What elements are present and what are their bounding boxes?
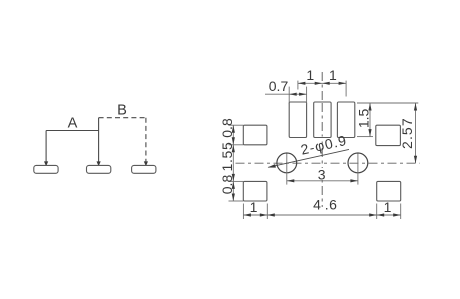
centerline vertical: [321, 72, 323, 207]
top pad 2: [314, 102, 331, 138]
svg-text:2.57: 2.57: [399, 117, 415, 149]
side pad right-bottom: [377, 181, 401, 201]
terminal pad 3: [132, 165, 156, 173]
ext line 1.5 bottom: [357, 136, 373, 138]
ext tick 0.7 right: [306, 87, 308, 105]
arrow at pad 2: [97, 161, 101, 166]
dim 0.7 line: [265, 93, 307, 95]
ext 243: [242, 204, 244, 220]
top pad 1: [289, 102, 306, 138]
arrow at pad 3: [144, 161, 148, 166]
ext line y201: [229, 200, 244, 202]
terminal pad 2: [87, 165, 111, 173]
svg-text:0.7: 0.7: [269, 78, 289, 94]
side pad left-bottom: [243, 181, 267, 201]
ext 376: [376, 204, 378, 220]
dim 2.57 line: [415, 103, 417, 163]
ext line y125: [229, 124, 244, 126]
dim 1.5 line: [369, 103, 371, 137]
hole circle left: [277, 153, 297, 173]
ext line y181: [229, 180, 244, 182]
wire vertical to pad 2: [98, 118, 100, 165]
ext tick 0.7 left: [288, 87, 290, 105]
svg-text:B: B: [117, 103, 127, 119]
top pad 3: [337, 102, 354, 138]
arrows 4.6: [267, 213, 275, 216]
wire A horizontal: [46, 130, 99, 132]
center mark / extension right circle: [357, 154, 359, 185]
dim 3 line: [287, 180, 358, 182]
ext tick right: [345, 81, 347, 97]
ext line top right long: [357, 102, 418, 104]
arrows chain 0.8 top: [232, 125, 235, 133]
center mark / extension left circle: [286, 154, 288, 185]
wire A vertical to pad 1: [45, 131, 47, 165]
arrows chain 0.8 bottom: [232, 181, 235, 189]
svg-text:1.55: 1.55: [219, 141, 235, 171]
bottom dim line: [243, 214, 400, 216]
leader line 2-phi0.9: [268, 149, 349, 167]
left chain dim line: [232, 125, 234, 201]
terminal pad 1: [34, 165, 58, 173]
svg-text:0.8: 0.8: [219, 175, 235, 195]
white backing for 3: [317, 168, 327, 180]
hole circle right: [348, 153, 368, 173]
arrows 1.5: [368, 103, 371, 111]
wire B vertical dashed to pad 3: [145, 118, 147, 165]
arrows 1 left: [243, 213, 251, 216]
arrows pitch dims: [298, 82, 306, 85]
svg-text:1.5: 1.5: [356, 108, 372, 128]
centerline vertical inside pad2 redraw: [321, 103, 323, 137]
svg-text:1: 1: [329, 67, 337, 83]
side pad left-top: [243, 125, 267, 145]
svg-text:1: 1: [250, 199, 258, 215]
svg-text:A: A: [68, 116, 78, 132]
svg-text:1: 1: [306, 67, 314, 83]
svg-text:4: 4: [313, 197, 321, 213]
arrows 3: [287, 179, 295, 182]
leader arrow: [268, 164, 276, 168]
ext tick left: [297, 81, 299, 90]
side pad right-top: [376, 125, 401, 145]
ext 267: [266, 204, 268, 220]
wire B horizontal dashed: [99, 117, 146, 119]
svg-text:0.8: 0.8: [219, 118, 235, 138]
arrow at pad 1: [44, 161, 48, 166]
svg-text:.6: .6: [325, 197, 338, 213]
centerline horizontal: [236, 162, 420, 164]
dim top pitch line: [298, 82, 346, 84]
ext 400: [400, 204, 402, 220]
svg-text:3: 3: [318, 166, 326, 182]
svg-text:1: 1: [384, 199, 392, 215]
arrows 2.57: [414, 103, 417, 111]
arrows 0.7: [289, 93, 297, 96]
arrows 1 right: [377, 213, 385, 216]
arrows chain 1.55: [232, 145, 235, 153]
ext line y145: [229, 144, 244, 146]
